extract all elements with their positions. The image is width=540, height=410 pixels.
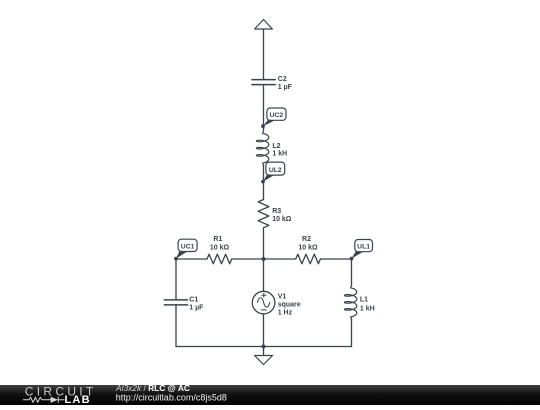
wire left rail horizontal xyxy=(176,258,207,260)
voltage source V1 xyxy=(252,291,275,314)
wire R1 to junction xyxy=(232,258,264,260)
junction center xyxy=(262,257,266,261)
svg-text:V1: V1 xyxy=(278,293,287,300)
svg-text:1 µF: 1 µF xyxy=(278,84,293,91)
svg-text:1 kH: 1 kH xyxy=(272,151,287,158)
wire left branch down xyxy=(175,259,177,300)
node dot UL1 xyxy=(350,257,354,261)
node VCC antenna symbol xyxy=(255,20,273,30)
node dot UL2 xyxy=(261,180,265,184)
wire R3 to center junction xyxy=(263,228,265,259)
svg-text:square: square xyxy=(278,302,301,309)
wire bottom rail xyxy=(176,346,352,348)
svg-text:UL2: UL2 xyxy=(269,167,282,174)
wire stub to ground xyxy=(263,347,265,356)
svg-text:UC2: UC2 xyxy=(270,112,284,119)
flag UL2 xyxy=(263,162,285,182)
inductor L1 xyxy=(344,285,356,319)
svg-text:10 kΩ: 10 kΩ xyxy=(272,216,292,223)
resistor R3 xyxy=(258,200,269,228)
wire right branch down xyxy=(351,259,353,285)
wire center junction to V1 xyxy=(263,259,265,291)
flag UC2 xyxy=(263,108,286,126)
svg-text:R1: R1 xyxy=(213,236,222,243)
wire C2 to L2 xyxy=(263,85,265,131)
flag UL1 xyxy=(352,240,373,259)
svg-text:10 kΩ: 10 kΩ xyxy=(210,244,230,251)
ground xyxy=(255,356,273,365)
wire V1 to bottom rail xyxy=(263,314,265,347)
inductor L2 xyxy=(256,131,268,166)
svg-text:UL1: UL1 xyxy=(357,244,370,251)
node dot UC1 xyxy=(174,257,178,261)
svg-text:C1: C1 xyxy=(189,297,198,304)
capacitor C2 xyxy=(252,80,275,85)
wire R2 to right corner xyxy=(320,258,351,260)
node dot UC2 xyxy=(261,124,265,128)
capacitor C1 xyxy=(164,300,187,305)
svg-text:UC1: UC1 xyxy=(181,243,195,250)
logo wire resistor diode motif xyxy=(23,397,65,403)
resistor R1 xyxy=(207,254,232,264)
svg-text:R2: R2 xyxy=(302,236,311,243)
svg-text:1 kH: 1 kH xyxy=(360,305,375,312)
svg-text:1 µF: 1 µF xyxy=(189,305,204,312)
svg-text:C2: C2 xyxy=(278,76,287,83)
svg-text:L1: L1 xyxy=(360,297,368,304)
wire L2 to R3 xyxy=(263,166,265,200)
svg-text:R3: R3 xyxy=(272,208,281,215)
wire L1 to bottom rail xyxy=(351,319,353,346)
junction bottom xyxy=(262,345,266,349)
svg-text:10 kΩ: 10 kΩ xyxy=(298,244,318,251)
svg-text:http://circuitlab.com/c8js5d8: http://circuitlab.com/c8js5d8 xyxy=(116,392,227,402)
wire C1 to bottom rail xyxy=(175,305,177,347)
svg-text:L2: L2 xyxy=(272,143,280,150)
svg-text:LAB: LAB xyxy=(65,394,91,405)
wire top to C2 xyxy=(263,29,265,79)
wire junction to R2 xyxy=(264,258,296,260)
flag UC1 xyxy=(176,239,197,258)
resistor R2 xyxy=(296,254,321,264)
svg-text:1 Hz: 1 Hz xyxy=(278,310,293,317)
